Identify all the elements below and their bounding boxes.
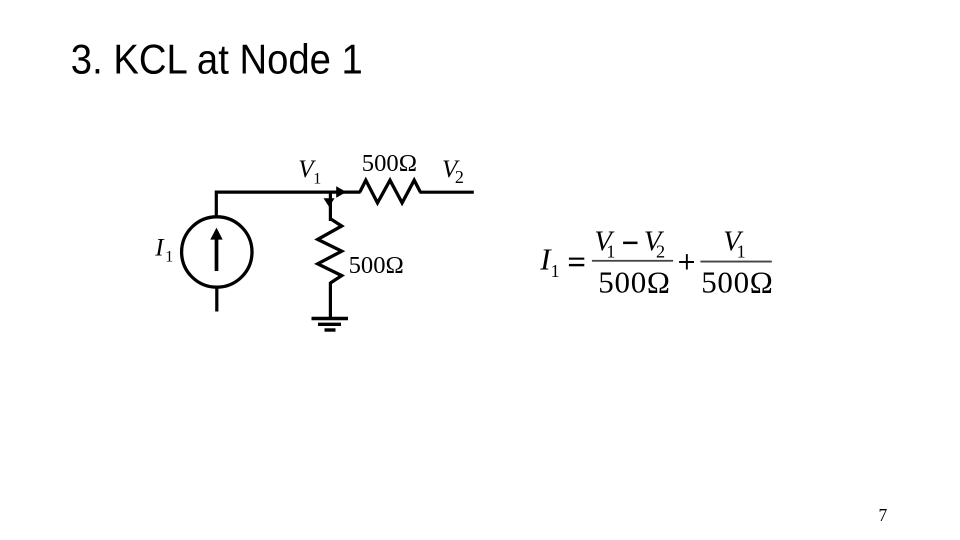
svg-text:2: 2 (455, 167, 464, 187)
wire: node V1 down to resistor R2 (329, 192, 332, 222)
svg-text:1: 1 (606, 241, 615, 261)
svg-text:1: 1 (165, 249, 173, 266)
wire: from R1 to V2 (420, 191, 474, 194)
eq fraction 1 bar (592, 260, 673, 262)
svg-text:500Ω: 500Ω (362, 150, 417, 177)
resistor R2 500ohm vertical (318, 219, 342, 283)
current source arrow (upward) (215, 239, 219, 272)
resistor R1 500ohm horizontal (360, 180, 421, 203)
wire: horizontal rail from source corner to resistor R1 (215, 191, 361, 194)
eq plus (679, 261, 694, 263)
current source I1 (182, 217, 252, 287)
svg-text:500Ω: 500Ω (349, 252, 404, 279)
svg-text:2: 2 (656, 242, 665, 262)
equation I1 = (V1-V2)/500ohm + V1/500ohm (539, 226, 773, 299)
svg-text:1: 1 (737, 242, 746, 262)
svg-text:3. KCL at Node 1: 3. KCL at Node 1 (71, 35, 363, 82)
svg-text:1: 1 (313, 171, 321, 188)
svg-text:500Ω: 500Ω (701, 265, 773, 300)
wire: R2 to ground (329, 282, 332, 318)
current arrow into R1 (right-pointing) (336, 186, 346, 198)
current arrow into R2 (down-pointing) (324, 198, 335, 207)
svg-text:7: 7 (879, 505, 888, 525)
wire: bottom stub of current source (215, 287, 218, 312)
svg-text:I: I (154, 235, 165, 262)
svg-text:1: 1 (551, 261, 560, 281)
eq equals (569, 258, 584, 260)
eq fraction 2 bar (700, 261, 771, 263)
wire: top-left vertical from source to horizontal rail (215, 194, 218, 217)
ground (312, 317, 349, 320)
svg-text:500Ω: 500Ω (598, 265, 670, 300)
